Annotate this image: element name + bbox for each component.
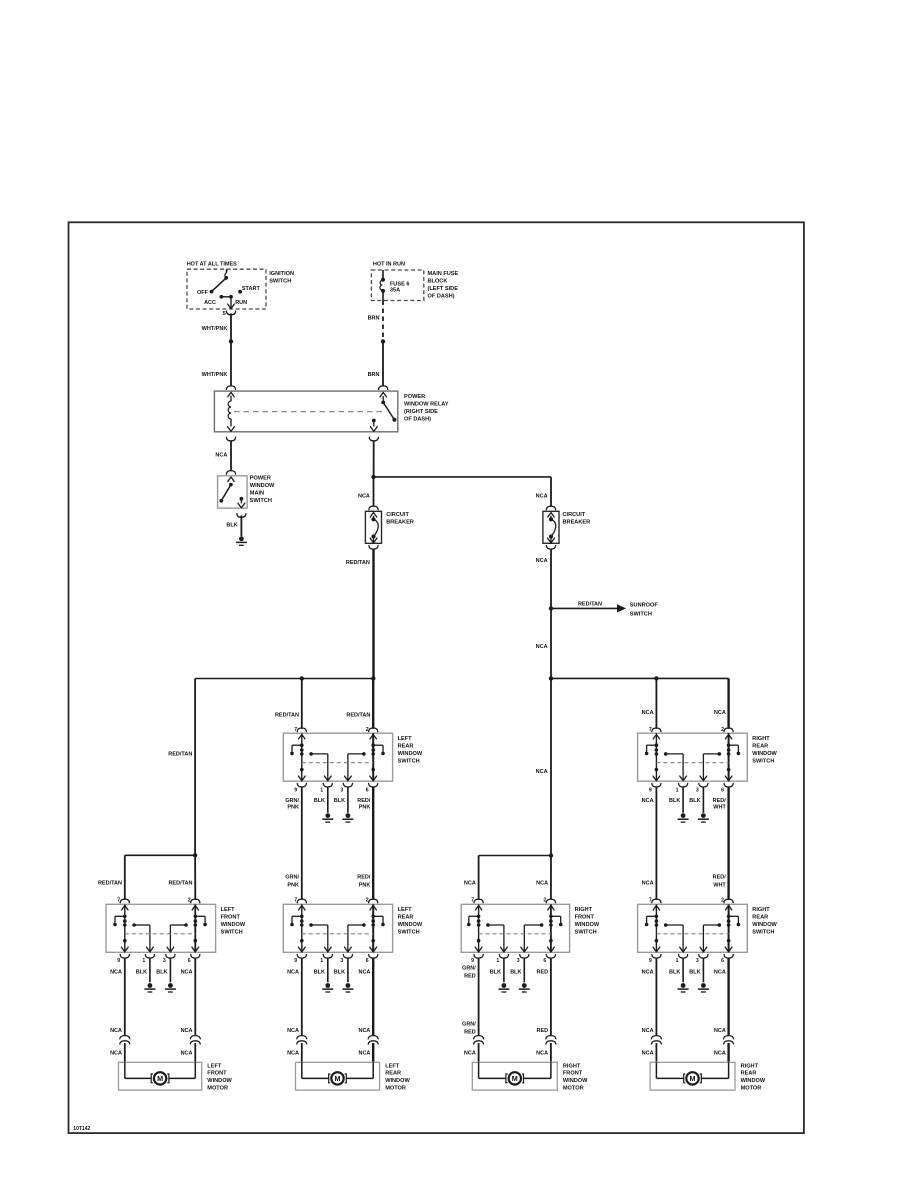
wire left rear pin3 to ground <box>347 787 349 813</box>
svg-text:IGNITION: IGNITION <box>269 271 294 277</box>
svg-text:SWITCH: SWITCH <box>752 758 774 764</box>
svg-text:M: M <box>690 1074 696 1083</box>
svg-text:PNK: PNK <box>359 805 371 811</box>
svg-text:RED/TAN: RED/TAN <box>275 712 299 718</box>
svg-text:BLK: BLK <box>226 522 237 528</box>
svg-text:RIGHT: RIGHT <box>575 907 593 913</box>
left front window switch pin 3 connector <box>167 947 174 952</box>
right rear window switch pin 9 connector <box>653 776 660 781</box>
left rear window switch pin 6 connector <box>370 776 377 781</box>
right rear window switch pin 7 connector <box>652 728 661 732</box>
right front window switch pin 7 connector <box>474 899 483 903</box>
svg-text:PNK: PNK <box>287 805 299 811</box>
svg-text:WINDOW: WINDOW <box>385 1078 410 1084</box>
main switch top connector <box>226 471 235 475</box>
svg-text:POWER: POWER <box>250 476 271 482</box>
svg-text:BLK: BLK <box>689 969 700 975</box>
svg-text:MAIN FUSE: MAIN FUSE <box>428 271 459 277</box>
svg-text:BRN: BRN <box>368 372 380 378</box>
left rear window switch lower pin 2 connector <box>369 899 378 903</box>
left rear window switch internal wiring <box>301 733 303 781</box>
svg-text:RED/: RED/ <box>357 798 371 804</box>
right rear window switch lower pin 9 connector <box>653 947 660 952</box>
svg-text:RED/TAN: RED/TAN <box>168 752 192 758</box>
wire RED/TAN CB1 to bus <box>372 549 374 679</box>
svg-text:SWITCH: SWITCH <box>250 498 272 504</box>
svg-text:WINDOW: WINDOW <box>398 922 423 928</box>
svg-text:(LEFT SIDE: (LEFT SIDE <box>428 286 459 292</box>
svg-text:35A: 35A <box>390 288 400 294</box>
splice right front motor left <box>474 1036 484 1039</box>
svg-text:BLK: BLK <box>689 798 700 804</box>
main switch output terminal <box>240 497 244 501</box>
svg-text:REAR: REAR <box>741 1071 757 1077</box>
svg-text:MOTOR: MOTOR <box>385 1085 406 1091</box>
left front window switch internal wiring <box>124 904 126 952</box>
wire to CB1 <box>373 477 375 507</box>
right front window switch box <box>461 904 569 952</box>
svg-text:NCA: NCA <box>714 1050 726 1056</box>
ground main switch <box>239 536 244 541</box>
fuse 6 35A <box>382 270 384 280</box>
power window main switch box <box>218 476 248 508</box>
right rear window switch lower internal wiring <box>655 904 657 952</box>
svg-text:9: 9 <box>649 958 652 964</box>
svg-text:1: 1 <box>496 958 499 964</box>
left front window motor box <box>119 1062 202 1090</box>
svg-text:NCA: NCA <box>110 969 122 975</box>
splice right front motor right <box>546 1036 556 1039</box>
wire RED/WHT right rear pin6 down <box>727 787 729 900</box>
svg-text:FRONT: FRONT <box>575 914 595 920</box>
svg-text:1: 1 <box>676 787 679 793</box>
svg-text:9: 9 <box>294 958 297 964</box>
svg-text:SWITCH: SWITCH <box>630 611 652 617</box>
wire right front lower pin3 to ground <box>523 958 525 982</box>
svg-text:LEFT: LEFT <box>385 1063 400 1069</box>
right rear window switch internal dashed line <box>656 762 728 764</box>
svg-text:BLK: BLK <box>314 969 325 975</box>
right rear window switch pin 3 connector <box>700 776 707 781</box>
svg-text:SWITCH: SWITCH <box>752 929 774 935</box>
svg-text:RED/TAN: RED/TAN <box>168 881 192 887</box>
wire right rear pin3 to ground <box>702 787 704 813</box>
wire left rear pin1 to ground <box>327 787 329 813</box>
right front window switch pin 2 connector <box>546 899 555 903</box>
wire right rear lower pin3 to ground <box>702 958 704 982</box>
svg-text:SWITCH: SWITCH <box>221 929 243 935</box>
splice right rear motor left <box>651 1036 661 1039</box>
svg-text:RIGHT: RIGHT <box>563 1063 581 1069</box>
svg-text:1: 1 <box>676 958 679 964</box>
left front window switch pin 1 connector <box>147 947 154 952</box>
left rear window switch lower internal wiring <box>301 904 303 952</box>
ignition switch box <box>187 269 266 309</box>
ground right front lower pin1 <box>502 983 507 988</box>
svg-text:BRN: BRN <box>368 315 380 321</box>
svg-text:WINDOW: WINDOW <box>207 1078 232 1084</box>
left front window switch internal dashed line <box>125 933 196 935</box>
svg-text:WINDOW: WINDOW <box>221 922 246 928</box>
node right front junction <box>549 853 553 857</box>
main fuse block box <box>371 270 423 301</box>
right front window switch internal dashed line <box>479 933 551 935</box>
svg-text:BLK: BLK <box>334 969 345 975</box>
main switch bottom connector <box>237 514 246 518</box>
right rear window switch lower pin 7 connector <box>652 899 661 903</box>
svg-text:LEFT: LEFT <box>207 1063 222 1069</box>
left front window switch pin 7 connector <box>120 899 129 903</box>
relay internal dashed line <box>234 411 387 413</box>
node bus right rear pin7 <box>654 676 658 680</box>
svg-text:RIGHT: RIGHT <box>741 1063 759 1069</box>
svg-text:WINDOW: WINDOW <box>398 751 423 757</box>
left rear window switch pin 1 connector <box>324 776 331 781</box>
svg-text:WHT: WHT <box>713 805 726 811</box>
svg-text:WHT/PNK: WHT/PNK <box>202 372 228 378</box>
wire right front branch horizontal <box>479 855 551 857</box>
wire right front switch pin9 to motor <box>478 958 480 1035</box>
svg-text:3: 3 <box>340 958 343 964</box>
wire left front lower pin3 to ground <box>169 958 171 982</box>
svg-text:1: 1 <box>142 958 145 964</box>
relay output terminal <box>372 419 376 423</box>
wire RED/TAN bus to left front <box>194 679 196 856</box>
ground left rear lower pin3 <box>346 983 351 988</box>
left rear window switch pin 7 connector <box>297 728 306 732</box>
svg-text:RED/TAN: RED/TAN <box>578 601 602 607</box>
svg-text:RED/TAN: RED/TAN <box>346 712 370 718</box>
svg-text:FUSE 6: FUSE 6 <box>390 281 410 287</box>
wire right front pin7 drop <box>478 856 480 900</box>
right rear window motor box <box>650 1062 735 1090</box>
svg-text:RED: RED <box>464 973 476 979</box>
wire NCA CB2 down <box>550 549 552 678</box>
svg-text:6: 6 <box>366 958 369 964</box>
svg-text:WINDOW RELAY: WINDOW RELAY <box>404 401 449 407</box>
svg-text:WHT: WHT <box>713 883 726 889</box>
svg-text:OF DASH): OF DASH) <box>428 294 455 300</box>
svg-text:PNK: PNK <box>359 883 371 889</box>
svg-text:LEFT: LEFT <box>221 907 236 913</box>
node left front junction <box>193 853 197 857</box>
svg-text:NCA: NCA <box>358 1028 370 1034</box>
relay pin connector left <box>226 386 235 390</box>
svg-text:CIRCUIT: CIRCUIT <box>563 512 586 518</box>
svg-text:GRN/: GRN/ <box>462 1022 476 1028</box>
splice dot BRN <box>381 339 385 343</box>
splice dot WHT/PNK <box>229 339 233 343</box>
svg-text:9: 9 <box>117 958 120 964</box>
splice left front motor left <box>120 1036 130 1039</box>
svg-text:6: 6 <box>721 958 724 964</box>
relay bottom connector right <box>369 437 378 441</box>
svg-text:NCA: NCA <box>287 1028 299 1034</box>
svg-text:SWITCH: SWITCH <box>269 278 291 284</box>
svg-text:GRN/: GRN/ <box>285 875 299 881</box>
svg-text:NCA: NCA <box>536 494 548 500</box>
svg-text:1: 1 <box>320 787 323 793</box>
contact START <box>238 290 242 294</box>
svg-text:NCA: NCA <box>464 881 476 887</box>
svg-text:NCA: NCA <box>642 881 654 887</box>
motor M left rear <box>301 1062 303 1078</box>
svg-text:FRONT: FRONT <box>207 1071 227 1077</box>
svg-text:REAR: REAR <box>385 1071 401 1077</box>
svg-text:NCA: NCA <box>181 969 193 975</box>
svg-text:9: 9 <box>649 787 652 793</box>
relay pin connector right <box>379 386 388 390</box>
wire left front pin2 drop <box>194 855 196 900</box>
svg-text:WINDOW: WINDOW <box>752 922 777 928</box>
svg-text:OF DASH): OF DASH) <box>404 416 431 422</box>
right front window switch internal wiring <box>478 904 480 952</box>
right front window switch pin 3 connector <box>521 947 528 952</box>
svg-text:NCA: NCA <box>536 881 548 887</box>
svg-text:NCA: NCA <box>110 1050 122 1056</box>
wire right rear switch pin9 to motor <box>655 958 657 1035</box>
svg-text:SWITCH: SWITCH <box>398 758 420 764</box>
svg-text:RED: RED <box>536 1028 548 1034</box>
svg-text:POWER: POWER <box>404 394 425 400</box>
wire left rear lower pin1 to ground <box>327 958 329 982</box>
left rear window switch pin 9 connector <box>298 776 305 781</box>
relay bottom connector left <box>226 437 235 441</box>
wire NCA relay to power window main switch <box>230 440 232 471</box>
svg-text:WINDOW: WINDOW <box>575 922 600 928</box>
wire right power bus NCA <box>551 677 729 679</box>
right rear window switch lower pin 3 connector <box>700 947 707 952</box>
left front window switch pin 9 connector <box>121 947 128 952</box>
right rear window switch box <box>638 733 748 781</box>
svg-text:NCA: NCA <box>358 1050 370 1056</box>
svg-text:SUNROOF: SUNROOF <box>630 603 659 609</box>
wire left rear lower pin3 to ground <box>347 958 349 982</box>
left rear window switch box <box>283 733 392 781</box>
svg-text:REAR: REAR <box>752 743 768 749</box>
motor M left front <box>124 1062 126 1078</box>
ground right rear lower pin3 <box>701 983 706 988</box>
left front window switch pin 2 connector <box>191 899 200 903</box>
circuit breaker 2 <box>546 506 555 510</box>
svg-text:HOT AT ALL TIMES: HOT AT ALL TIMES <box>187 261 237 267</box>
ground right front lower pin3 <box>522 983 527 988</box>
wire WHT/PNK ignition pin5 to relay <box>230 313 232 386</box>
svg-text:NCA: NCA <box>536 769 548 775</box>
svg-text:NCA: NCA <box>215 453 227 459</box>
wire junction to CB2 horizontal <box>374 476 552 478</box>
svg-text:3: 3 <box>517 958 520 964</box>
svg-text:RED/TAN: RED/TAN <box>98 881 122 887</box>
wire right rear lower pin1 to ground <box>682 958 684 982</box>
wire left front lower pin1 to ground <box>149 958 151 982</box>
svg-text:GRN/: GRN/ <box>285 798 299 804</box>
wire left front switch pin6 to motor <box>194 958 196 1035</box>
svg-text:NCA: NCA <box>642 1028 654 1034</box>
svg-text:RED/: RED/ <box>357 875 371 881</box>
svg-text:NCA: NCA <box>714 710 726 716</box>
motor M right rear <box>655 1062 657 1078</box>
left rear window switch internal dashed line <box>302 762 373 764</box>
svg-text:BLK: BLK <box>156 969 167 975</box>
left rear window switch lower pin 7 connector <box>297 899 306 903</box>
svg-text:GRN/: GRN/ <box>462 966 476 972</box>
wire right rear pin1 to ground <box>682 787 684 813</box>
svg-text:BLK: BLK <box>314 798 325 804</box>
svg-text:WINDOW: WINDOW <box>752 751 777 757</box>
svg-text:9: 9 <box>471 958 474 964</box>
left rear window switch lower pin 1 connector <box>324 947 331 952</box>
relay switch blade <box>382 396 384 403</box>
svg-text:NCA: NCA <box>642 798 654 804</box>
svg-text:WINDOW: WINDOW <box>741 1078 766 1084</box>
svg-text:RED/TAN: RED/TAN <box>346 560 370 566</box>
svg-text:NCA: NCA <box>358 494 370 500</box>
svg-text:MAIN: MAIN <box>250 491 264 497</box>
svg-text:10T142: 10T142 <box>73 1126 90 1132</box>
ground left rear lower pin1 <box>325 983 330 988</box>
svg-text:RIGHT: RIGHT <box>752 736 770 742</box>
wire GRN/PNK left rear pin9 down <box>301 787 303 900</box>
diagram border frame <box>69 222 804 1133</box>
left front window switch pin 6 connector <box>192 947 199 952</box>
svg-text:3: 3 <box>340 787 343 793</box>
node bus CB2 feed <box>549 676 553 680</box>
svg-text:BLK: BLK <box>334 798 345 804</box>
wire RED/PNK left rear pin6 down <box>372 787 374 900</box>
svg-text:HOT IN RUN: HOT IN RUN <box>373 262 405 268</box>
svg-text:PNK: PNK <box>287 883 299 889</box>
left rear window switch pin 3 connector <box>345 776 352 781</box>
svg-text:3: 3 <box>696 787 699 793</box>
svg-text:BLK: BLK <box>136 969 147 975</box>
svg-text:REAR: REAR <box>398 914 414 920</box>
svg-text:WHT/PNK: WHT/PNK <box>202 326 228 332</box>
svg-text:9: 9 <box>294 787 297 793</box>
svg-text:6: 6 <box>543 958 546 964</box>
svg-text:START: START <box>242 286 261 292</box>
svg-text:NCA: NCA <box>642 969 654 975</box>
right rear window switch pin 1 connector <box>680 776 687 781</box>
svg-text:SWITCH: SWITCH <box>398 929 420 935</box>
svg-text:ACC: ACC <box>204 300 216 306</box>
svg-text:MOTOR: MOTOR <box>207 1085 228 1091</box>
right front window switch pin 9 connector <box>475 947 482 952</box>
wire BRN solid segment <box>382 341 384 386</box>
node bus CB1 feed <box>371 676 375 680</box>
ground left rear pin1 <box>325 813 330 818</box>
ground right rear pin1 <box>681 813 686 818</box>
svg-text:BLK: BLK <box>669 798 680 804</box>
svg-text:NCA: NCA <box>110 1028 122 1034</box>
svg-text:3: 3 <box>696 958 699 964</box>
svg-text:M: M <box>335 1074 341 1083</box>
svg-text:NCA: NCA <box>181 1050 193 1056</box>
wire left front branch horizontal <box>125 854 195 856</box>
wire left rear switch pin6 to motor <box>372 958 374 1035</box>
svg-text:BREAKER: BREAKER <box>386 520 414 526</box>
ground right rear pin3 <box>701 813 706 818</box>
ground right rear lower pin1 <box>681 983 686 988</box>
svg-text:WINDOW: WINDOW <box>250 483 275 489</box>
svg-text:M: M <box>157 1074 163 1083</box>
svg-text:NCA: NCA <box>642 710 654 716</box>
splice left rear motor left <box>297 1036 307 1039</box>
wire left front switch pin9 to motor <box>124 958 126 1035</box>
svg-text:RIGHT: RIGHT <box>752 907 770 913</box>
wire bus to left rear switch pin 2 <box>372 679 374 729</box>
main switch blade <box>229 483 233 487</box>
svg-text:MOTOR: MOTOR <box>563 1085 584 1091</box>
wire RED/TAN to sunroof switch <box>551 607 618 609</box>
svg-text:(RIGHT SIDE: (RIGHT SIDE <box>404 409 438 415</box>
wire NCA right rear pin9 down <box>655 787 657 900</box>
svg-text:NCA: NCA <box>536 644 548 650</box>
svg-text:NCA: NCA <box>181 1028 193 1034</box>
right front window motor box <box>472 1062 557 1090</box>
svg-text:NCA: NCA <box>464 1050 476 1056</box>
svg-text:NCA: NCA <box>287 1050 299 1056</box>
left rear window switch pin 2 connector <box>369 728 378 732</box>
svg-text:NCA: NCA <box>642 1050 654 1056</box>
svg-text:FRONT: FRONT <box>563 1071 583 1077</box>
ground left front lower pin3 <box>168 983 173 988</box>
node sunroof tap <box>549 606 553 610</box>
motor M right front <box>478 1062 480 1078</box>
right rear window switch lower box <box>638 904 748 952</box>
svg-text:5: 5 <box>223 311 226 317</box>
wire bus to right rear switch pin 7 <box>655 678 657 728</box>
wire right rear switch pin6 to motor <box>727 958 729 1035</box>
svg-text:RED/: RED/ <box>713 798 727 804</box>
wire right front lower pin1 to ground <box>503 958 505 982</box>
splice left front motor right <box>190 1036 200 1039</box>
svg-text:3: 3 <box>163 958 166 964</box>
svg-text:BREAKER: BREAKER <box>563 520 591 526</box>
wire NCA relay output down <box>373 440 375 477</box>
left rear window motor box <box>296 1062 380 1090</box>
svg-text:NCA: NCA <box>714 969 726 975</box>
svg-text:LEFT: LEFT <box>398 736 413 742</box>
relay coil <box>230 396 232 401</box>
right front window switch pin 6 connector <box>548 947 555 952</box>
svg-text:NCA: NCA <box>287 969 299 975</box>
right rear window switch internal wiring <box>655 733 657 781</box>
ground left front lower pin1 <box>148 983 153 988</box>
right rear window switch pin 6 connector <box>725 776 732 781</box>
svg-text:RED: RED <box>464 1029 476 1035</box>
wire left front pin7 drop <box>124 855 126 900</box>
svg-text:BLK: BLK <box>510 969 521 975</box>
right rear window switch pin 2 connector <box>724 728 733 732</box>
right rear window switch lower pin 2 connector <box>724 899 733 903</box>
right rear window switch lower pin 1 connector <box>680 947 687 952</box>
svg-text:NCA: NCA <box>536 1050 548 1056</box>
left rear window switch lower internal dashed line <box>302 933 373 935</box>
wire NCA CB2 to right front <box>550 678 552 855</box>
svg-text:FRONT: FRONT <box>221 914 241 920</box>
splice right rear motor right <box>724 1036 734 1039</box>
svg-text:1: 1 <box>320 958 323 964</box>
ground left rear pin3 <box>346 813 351 818</box>
svg-text:M: M <box>512 1074 518 1083</box>
svg-text:NCA: NCA <box>358 969 370 975</box>
svg-text:OFF: OFF <box>197 290 209 296</box>
node junction relay output <box>371 475 375 479</box>
svg-text:6: 6 <box>188 958 191 964</box>
wire left power bus RED/TAN <box>195 678 373 680</box>
left front window switch box <box>106 904 216 952</box>
